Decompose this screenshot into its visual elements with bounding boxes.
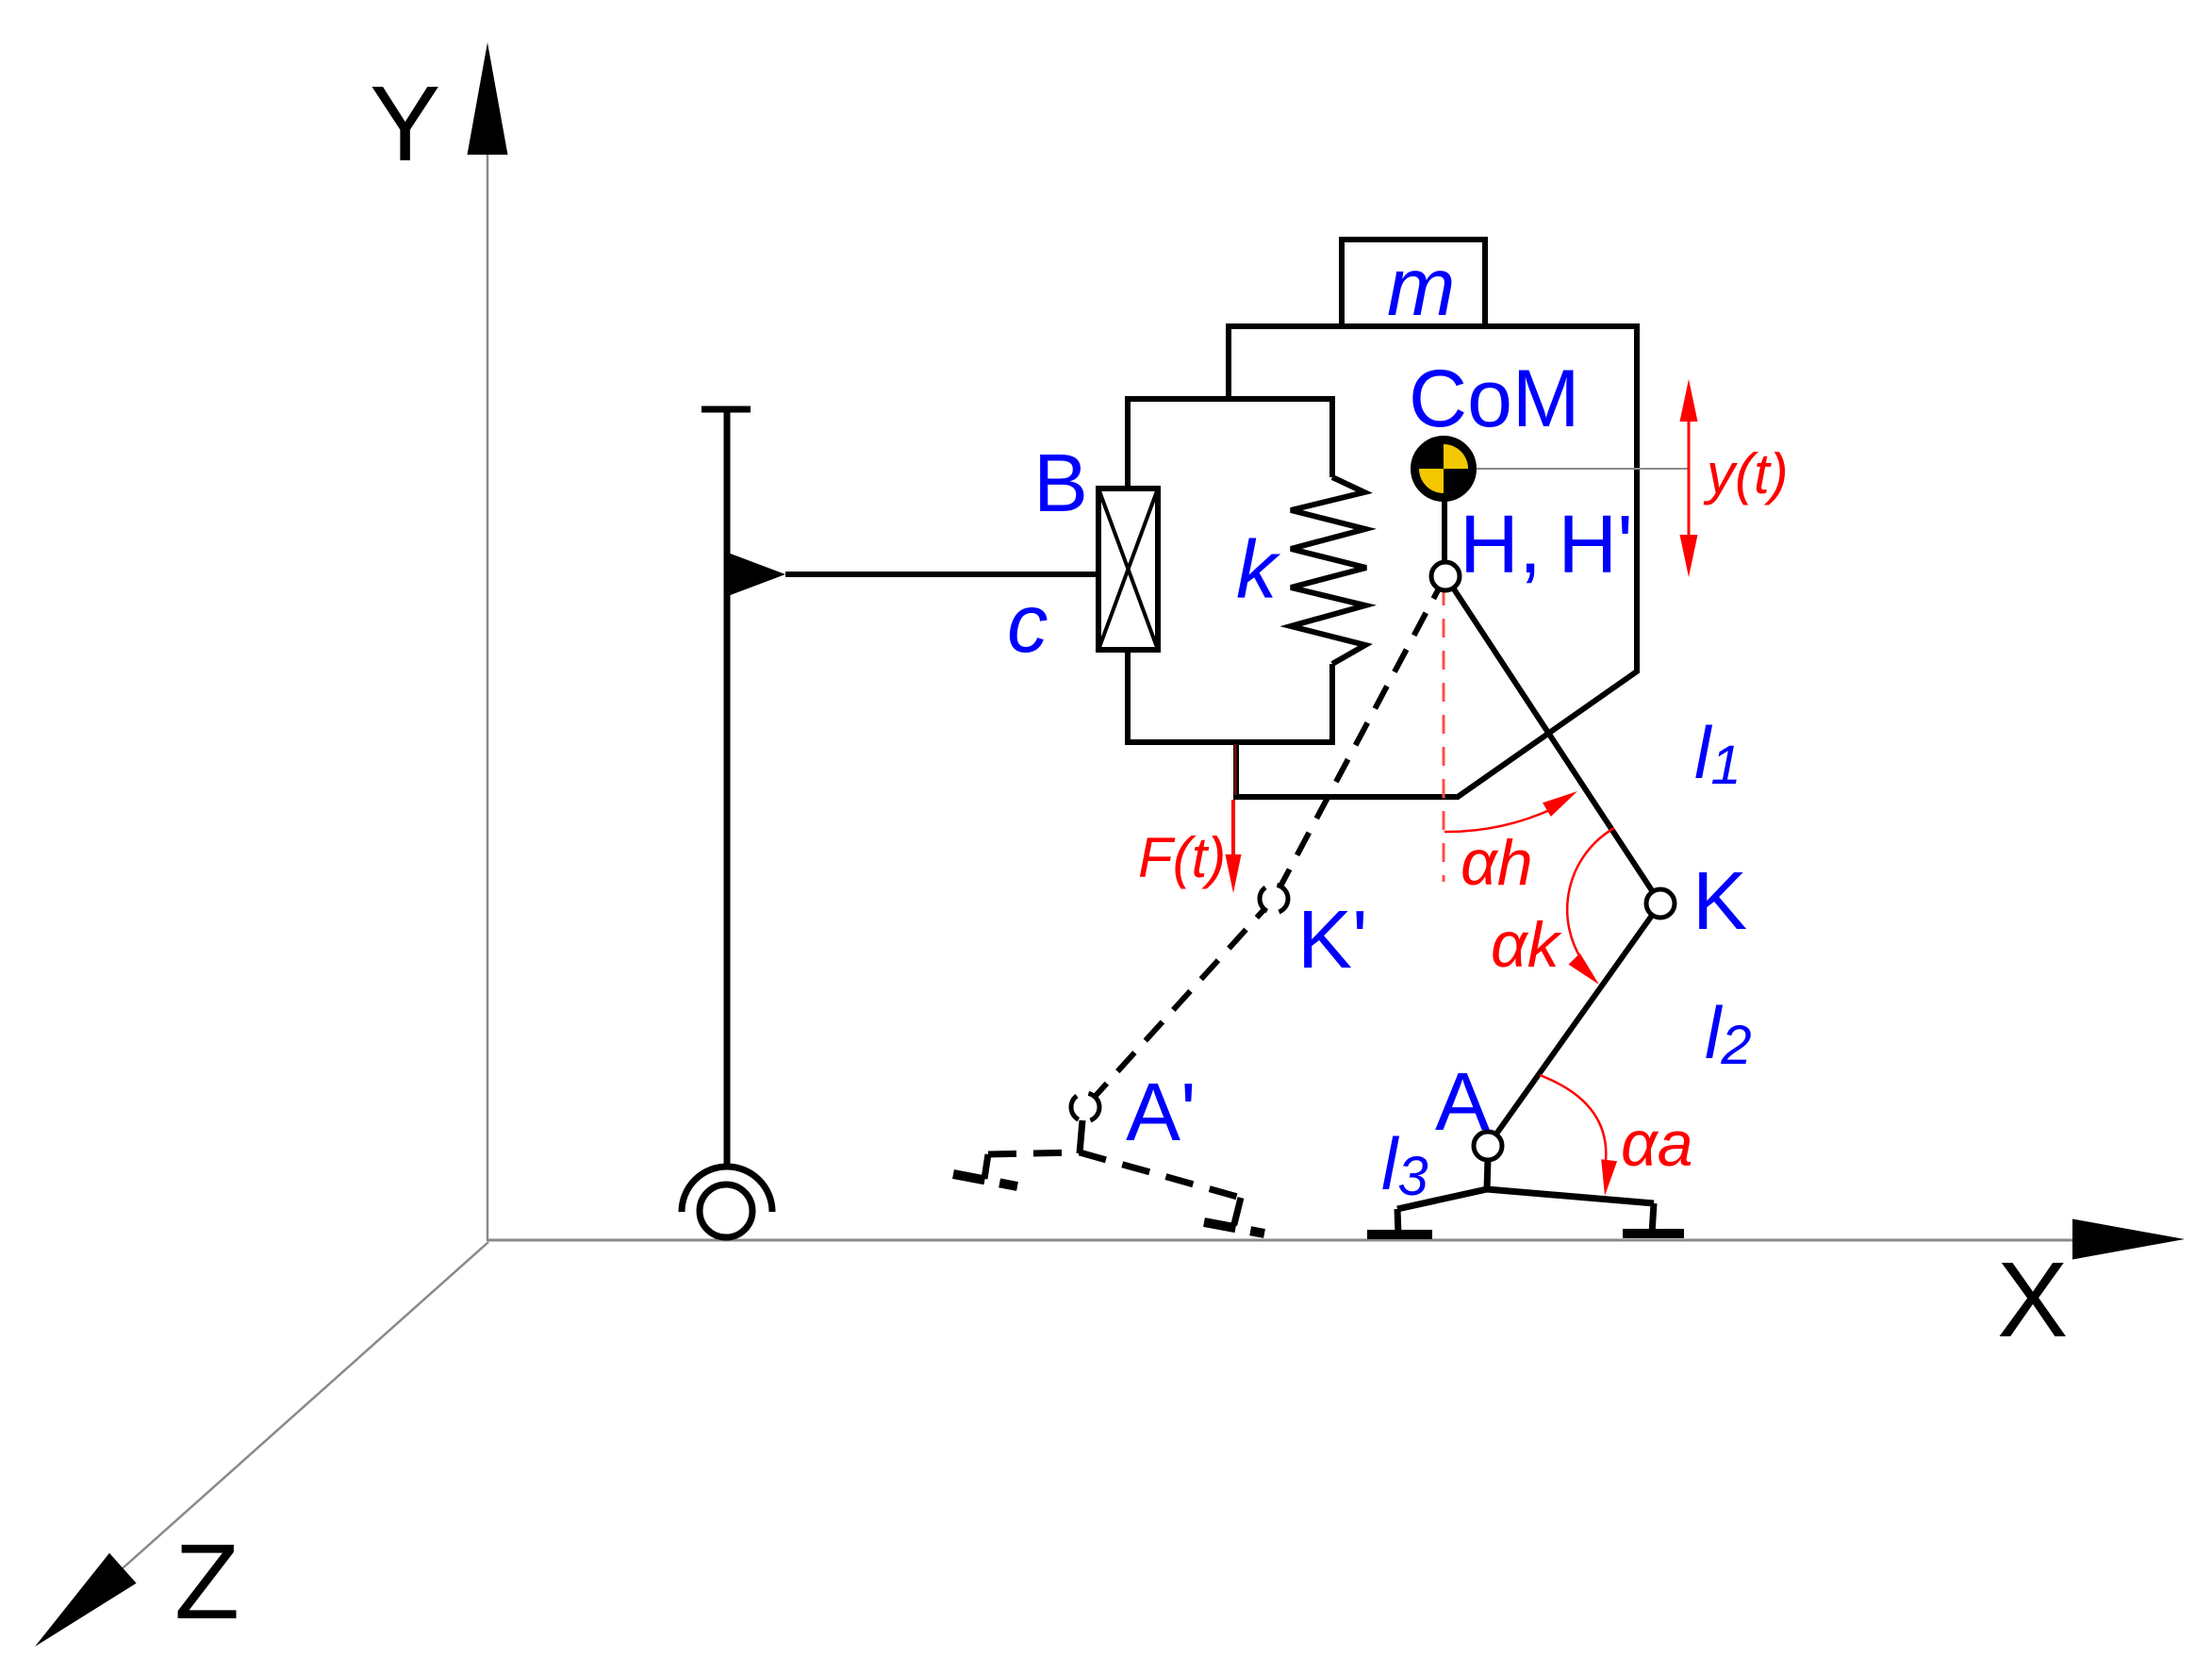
- svg-text:A': A': [1126, 1067, 1197, 1158]
- spring-damper frame top bar: [1125, 396, 1335, 402]
- svg-text:A: A: [1435, 1056, 1490, 1148]
- damper B box: [1098, 489, 1158, 650]
- damper cross diagonal 2: [1098, 489, 1158, 650]
- svg-text:F(t): F(t): [1138, 826, 1226, 889]
- angle arc alpha-h: [1444, 808, 1554, 832]
- stem CoM to hip: [1442, 495, 1447, 566]
- svg-text:Y: Y: [370, 64, 440, 183]
- angle arc alpha-k: [1567, 828, 1614, 962]
- frame right edge below spring: [1329, 664, 1335, 742]
- body outline: [1229, 326, 1637, 797]
- dashed thigh H to K': [1274, 576, 1445, 899]
- mass box m: [1342, 240, 1485, 326]
- axis Z: [123, 1242, 488, 1568]
- svg-text:l3: l3: [1381, 1122, 1428, 1207]
- wheel: [700, 1184, 752, 1237]
- svg-text:K: K: [1692, 855, 1747, 947]
- foot (dashed): [984, 1152, 1241, 1228]
- thin reference line from CoM to y(t) arrow: [1445, 468, 1689, 470]
- dashed shank K' to A': [1085, 899, 1274, 1107]
- svg-text:αk: αk: [1491, 909, 1562, 981]
- shank l2 knee K to ankle A: [1488, 903, 1660, 1146]
- CoM symbol: [1413, 439, 1474, 499]
- svg-text:B: B: [1033, 438, 1088, 529]
- red dashed vertical reference under hip: [1443, 587, 1445, 882]
- frame left edge below damper: [1125, 647, 1131, 742]
- axis X (ground line): [487, 1239, 2074, 1242]
- svg-text:m: m: [1387, 241, 1455, 333]
- frame left edge above damper: [1125, 399, 1131, 491]
- thigh l1 (solid) hip to knee K: [1445, 576, 1660, 903]
- svg-text:l1: l1: [1694, 711, 1742, 796]
- y(t) double arrow: [1688, 406, 1691, 552]
- knee joint K circle: [1646, 889, 1675, 918]
- rod from wall to damper: [785, 571, 1098, 577]
- axis Y: [487, 154, 489, 1241]
- wall pole top T-bar: [702, 406, 751, 413]
- knee joint K' circle (dashed): [1260, 885, 1288, 913]
- F(t) red force line (overlap with black step shows dark): [1234, 744, 1237, 795]
- damper cross diagonal 1: [1098, 489, 1158, 650]
- hip joint H circle: [1431, 562, 1460, 590]
- wall arrowhead on rod: [728, 553, 785, 596]
- svg-text:αa: αa: [1621, 1108, 1693, 1180]
- wheel outer arc: [682, 1167, 772, 1212]
- ankle joint A circle: [1474, 1132, 1502, 1160]
- ankle joint A' circle (dashed): [1071, 1093, 1099, 1121]
- spring-damper frame bottom bar: [1125, 739, 1335, 745]
- svg-text:CoM: CoM: [1409, 354, 1580, 444]
- spring k zigzag: [1291, 477, 1366, 664]
- svg-text:k: k: [1236, 524, 1281, 616]
- svg-text:X: X: [1997, 1240, 2068, 1359]
- ankle stem: [1487, 1158, 1488, 1190]
- foot (solid): [1397, 1189, 1654, 1234]
- svg-text:H, H': H, H': [1460, 499, 1633, 590]
- angle arc alpha-a: [1540, 1075, 1606, 1174]
- wall pole: [724, 406, 731, 1168]
- svg-text:Z: Z: [174, 1522, 239, 1641]
- svg-text:c: c: [1007, 578, 1048, 670]
- svg-text:l2: l2: [1705, 991, 1752, 1076]
- svg-text:y(t): y(t): [1703, 442, 1789, 505]
- svg-text:αh: αh: [1461, 827, 1533, 899]
- ankle stem A': [1080, 1120, 1082, 1153]
- svg-text:K': K': [1297, 894, 1368, 986]
- frame right edge above spring: [1329, 399, 1335, 477]
